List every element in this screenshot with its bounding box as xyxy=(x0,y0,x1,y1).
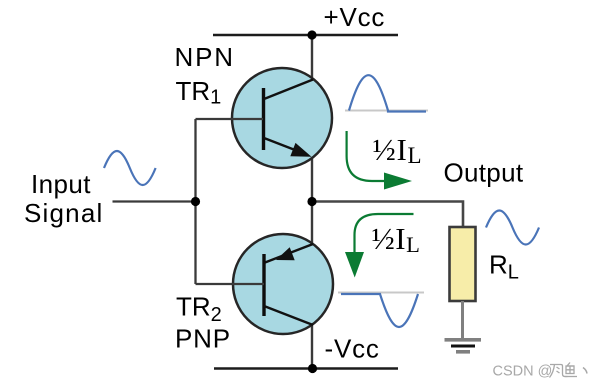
watermark glyph fei xyxy=(550,365,568,378)
wire PNP base xyxy=(196,283,265,285)
watermark glyph yu xyxy=(565,363,578,377)
svg-text:+Vcc: +Vcc xyxy=(324,2,386,32)
transistor TR1 NPN xyxy=(232,68,332,168)
transistor TR2 PNP xyxy=(233,234,333,334)
PNP waveform baseline xyxy=(338,292,424,294)
wire output xyxy=(312,202,463,228)
wire left base bus vertical xyxy=(194,119,196,284)
NPN waveform baseline xyxy=(345,110,428,112)
svg-text:Output: Output xyxy=(444,157,524,187)
current arrow lower half IL xyxy=(345,214,414,278)
wire center vertical bus xyxy=(311,35,313,369)
resistor RL xyxy=(450,227,476,301)
wire +Vcc rail xyxy=(213,34,398,36)
watermark glyph dot xyxy=(583,368,587,374)
NPN waveform half sine xyxy=(349,75,426,111)
wire RL to ground xyxy=(461,301,464,338)
node Vcc junction xyxy=(307,30,316,39)
svg-text:Signal: Signal xyxy=(24,198,103,228)
watermark CSDN xyxy=(493,363,588,380)
svg-text:Input: Input xyxy=(31,169,91,199)
output sine wave xyxy=(486,210,539,244)
wire NPN base xyxy=(196,118,264,120)
node input junction xyxy=(191,197,200,206)
svg-text:PNP: PNP xyxy=(175,324,231,354)
svg-text:CSDN @: CSDN @ xyxy=(493,364,553,380)
PNP waveform half sine xyxy=(341,294,418,327)
input sine wave xyxy=(104,151,156,185)
wire -Vcc rail xyxy=(214,367,398,369)
svg-text:NPN: NPN xyxy=(175,42,235,72)
ground xyxy=(445,340,482,352)
node output junction xyxy=(307,197,316,206)
current arrow upper half IL xyxy=(347,131,412,190)
svg-text:-Vcc: -Vcc xyxy=(325,333,380,363)
wire input xyxy=(113,200,196,202)
node -Vcc junction xyxy=(308,364,317,373)
